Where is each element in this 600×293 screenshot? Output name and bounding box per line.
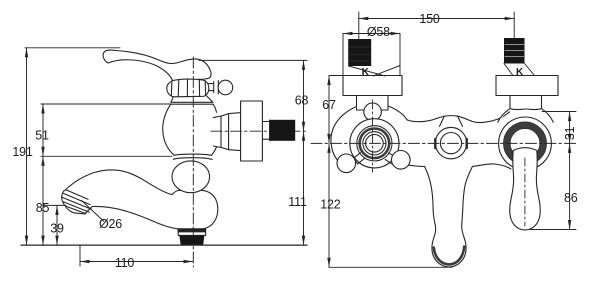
arrows dim 58	[343, 32, 353, 35]
spout bottom rim (dark)	[434, 247, 464, 265]
arrows dim 85	[41, 156, 44, 166]
handle side knob ball	[218, 80, 233, 95]
outlet collar white ring	[178, 232, 205, 236]
upper body (valve ball)	[163, 104, 217, 155]
right valve outer housing circle	[499, 117, 552, 170]
svg-text:51: 51	[35, 128, 49, 142]
handle collar (scalloped bonnet)	[167, 79, 209, 97]
svg-text:191: 191	[12, 145, 33, 159]
front body top edge	[407, 112, 509, 123]
extension line spout outlet level	[43, 204, 66, 206]
svg-text:85: 85	[36, 201, 50, 215]
left valve vertical centerline	[372, 100, 374, 172]
front body left wing	[331, 106, 407, 162]
svg-text:86: 86	[564, 191, 578, 205]
31 top extension line	[542, 111, 576, 113]
diverter circle	[435, 127, 466, 158]
arrows dim 31	[568, 112, 571, 122]
svg-text:150: 150	[419, 12, 440, 26]
left valve ring circles	[357, 126, 392, 161]
cross handle left prong ball	[337, 154, 356, 173]
spout (front, hanging below diverter)	[425, 167, 473, 268]
vertical centerline of body	[192, 57, 194, 267]
extension line bonnet flange level	[41, 103, 171, 105]
faucet handle (side view lever)	[103, 50, 211, 80]
top prong stem	[370, 120, 376, 126]
cross handle top prong ball	[364, 103, 382, 121]
wall connection hex nut (black)	[270, 120, 296, 141]
extension line waist level	[41, 155, 172, 157]
diverter top bump	[440, 116, 463, 126]
front body bottom edge	[396, 162, 511, 169]
left eccentric union connector below escutcheon	[357, 96, 389, 110]
122 bottom extension line	[329, 266, 452, 268]
arrows dim 51	[41, 104, 44, 114]
handle side knob stem	[207, 81, 219, 94]
svg-text:39: 39	[50, 221, 64, 235]
svg-text:122: 122	[320, 198, 341, 212]
left valve outer housing circle	[350, 119, 399, 168]
lever centerline	[524, 158, 526, 226]
svg-text:K: K	[362, 67, 370, 78]
dimension line 51/85	[42, 104, 44, 245]
extension line hub level (for 68)	[199, 59, 307, 61]
left union section diagonals	[349, 66, 400, 77]
middle body ball	[172, 161, 210, 193]
arrows dim 68	[302, 60, 305, 70]
wall union nut (side view)	[214, 113, 241, 151]
right valve dark ring (open at bottom)	[507, 125, 543, 158]
lever handle (front, hanging)	[510, 148, 541, 230]
union stem	[262, 120, 269, 141]
horizontal centerline of front body	[311, 142, 576, 144]
dim 58 dimension line	[343, 33, 400, 35]
right union section diagonals	[504, 64, 535, 76]
diverter bold side ticks	[435, 139, 466, 148]
waist ring between balls	[173, 154, 212, 159]
arrows dim 86	[568, 143, 571, 153]
svg-text:111: 111	[288, 195, 307, 209]
collar ridge lines	[171, 79, 205, 97]
svg-text:31: 31	[563, 126, 577, 140]
svg-text:110: 110	[115, 256, 135, 270]
left wall pipe (black threads)	[348, 39, 371, 66]
cross handle left prong stem	[354, 153, 365, 164]
arrows dim 191	[25, 48, 28, 58]
outlet collar dark band	[178, 229, 207, 232]
svg-text:Ø26: Ø26	[99, 217, 122, 231]
extension line top of handle	[25, 47, 120, 49]
arrows dim 150	[359, 17, 369, 20]
dimension line 68/111	[303, 60, 305, 245]
arrows dim 39	[55, 205, 58, 215]
cross handle right prong ball	[392, 151, 411, 170]
bonnet base flange	[171, 96, 214, 104]
svg-text:68: 68	[295, 93, 309, 107]
svg-text:K: K	[516, 67, 524, 78]
spout aerator cuff ring lines	[62, 190, 92, 214]
67/122 dimension line	[329, 76, 344, 268]
right valve ring outlines	[504, 122, 547, 165]
150 extension lines (pipe centers)	[359, 12, 514, 39]
dimension 110 lines	[80, 246, 193, 266]
horizontal centerline of wall connection	[211, 130, 308, 132]
cross handle right prong stem	[385, 153, 396, 164]
150 dimension line	[359, 18, 514, 20]
lower body and spout (thick S-curve tube)	[62, 170, 218, 229]
arrows dim 67	[327, 76, 330, 86]
right escutcheon (front)	[496, 76, 558, 96]
31/86 dimension line	[569, 112, 571, 230]
arrows dim 111	[302, 131, 305, 141]
arrows dim 110	[80, 260, 90, 263]
arrows dim 122	[327, 143, 330, 153]
dimension line 39	[56, 205, 58, 245]
shower outlet threads (black) at body bottom	[179, 236, 204, 245]
leader line for diameter 26	[81, 200, 104, 222]
svg-text:Ø58: Ø58	[367, 25, 390, 39]
left valve hub	[366, 135, 384, 153]
dim 58 projection box sides	[343, 34, 400, 76]
86 bottom extension line	[530, 229, 576, 231]
wall escutcheon plate (side view)	[241, 101, 263, 161]
right wall pipe (black threads)	[504, 38, 525, 64]
left escutcheon (front)	[343, 76, 402, 96]
svg-text:67: 67	[322, 98, 336, 112]
dimension line 191	[26, 48, 28, 245]
right valve neck	[498, 96, 554, 123]
ground baseline	[21, 244, 307, 246]
